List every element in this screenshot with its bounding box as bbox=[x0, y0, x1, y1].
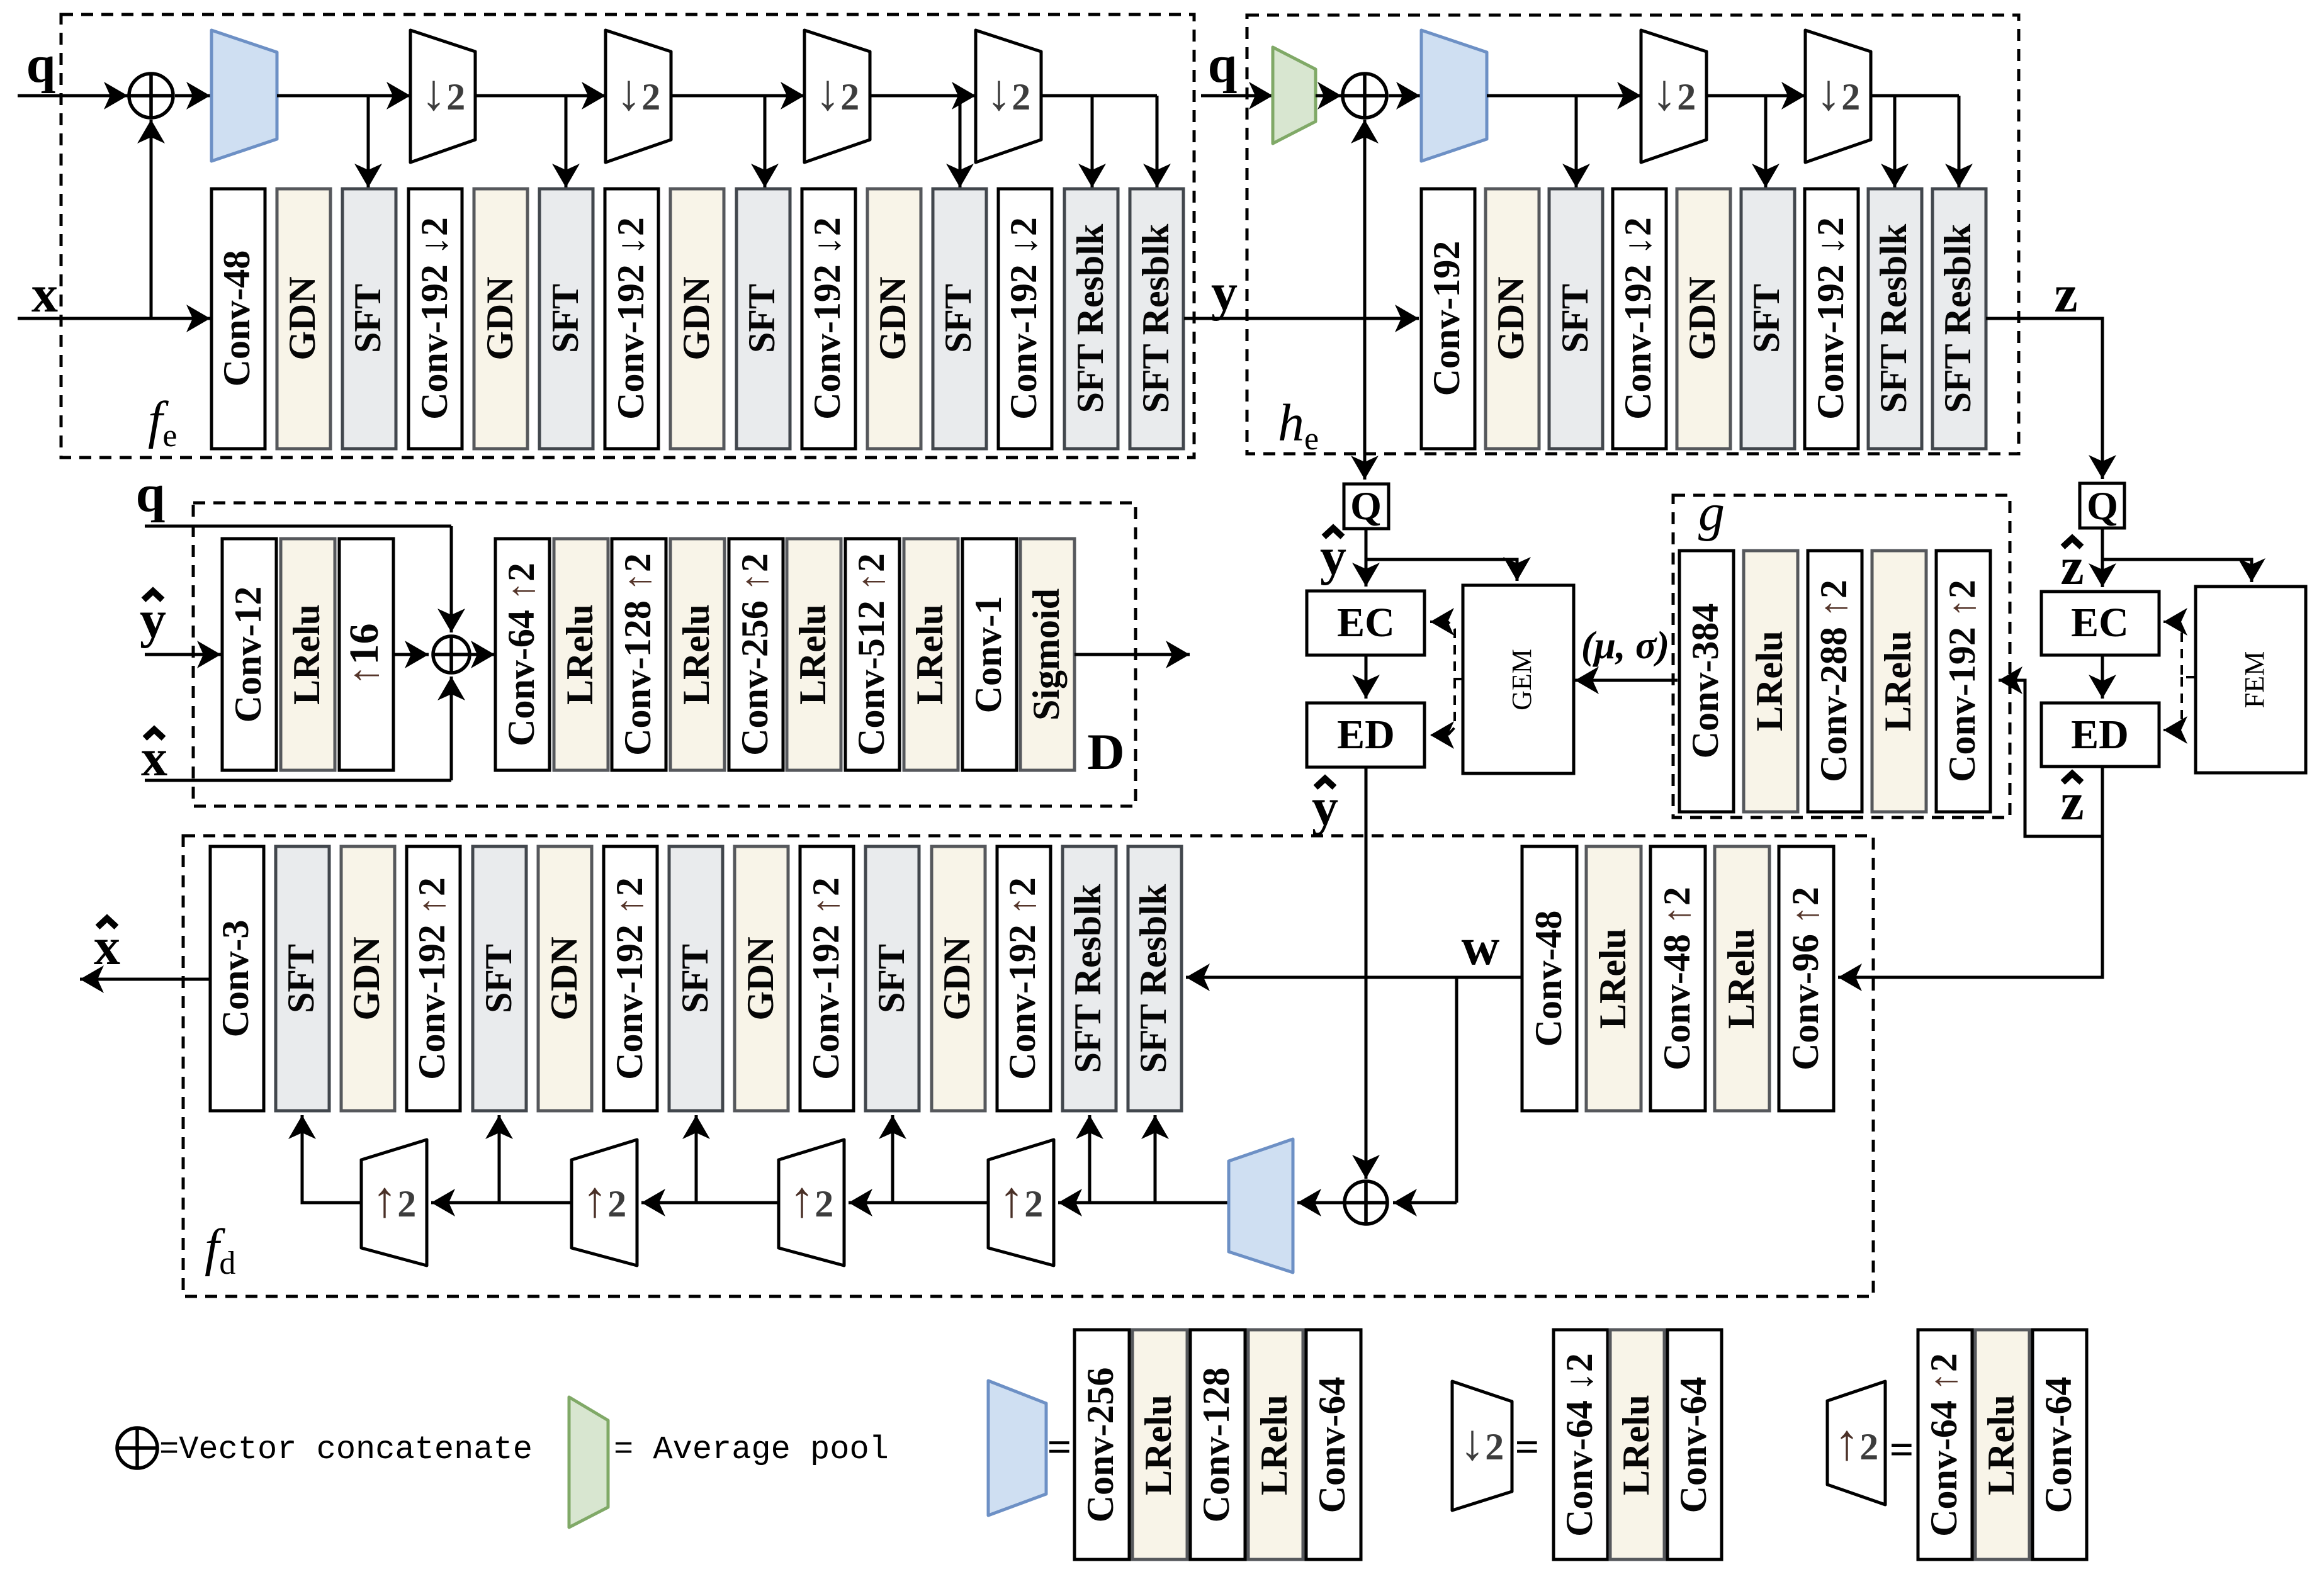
svg-text:Conv-64: Conv-64 bbox=[1672, 1377, 1714, 1514]
branch up to SFT Resblk1 (f_d) bbox=[1088, 1115, 1091, 1203]
legend block Conv-64 (up2 expansion #3) bbox=[2033, 1330, 2087, 1559]
svg-text:Conv-64: Conv-64 bbox=[1311, 1377, 1353, 1514]
svg-text:D: D bbox=[1087, 723, 1124, 780]
block Conv-12 (D front #1) bbox=[222, 539, 276, 770]
label z-hat below ED bbox=[2060, 773, 2084, 831]
svg-text:↑16: ↑16 bbox=[341, 624, 387, 686]
block GDN (f_d #6) bbox=[538, 846, 592, 1111]
dashed box h_e hyper-encoder bbox=[1247, 15, 2019, 454]
wire z from h_e to Q bbox=[1986, 318, 2102, 479]
svg-text:Conv-1: Conv-1 bbox=[967, 596, 1009, 714]
block LRelu (D main #2) bbox=[554, 539, 608, 770]
svg-text:GDN: GDN bbox=[1490, 276, 1531, 360]
branch up to SFT2 (f_d) bbox=[498, 1115, 501, 1203]
svg-text:Conv-192 ↑2: Conv-192 ↑2 bbox=[609, 877, 650, 1080]
block Conv-384 (g #1) bbox=[1679, 551, 1734, 812]
svg-text:Sigmoid: Sigmoid bbox=[1025, 588, 1067, 721]
block GDN (h_e #2) bbox=[1486, 189, 1539, 449]
GEM box bbox=[1463, 585, 1574, 773]
svg-text:Conv-192 ↓2: Conv-192 ↓2 bbox=[806, 217, 848, 420]
wire y-hat from ED down to concat (f_d) bbox=[1365, 767, 1368, 1179]
branch down to SFT3 (f_e) bbox=[764, 96, 767, 188]
wire x-hat up into concat (D) bbox=[450, 677, 453, 780]
wire concat to blue conv stack (h_e) bbox=[1389, 94, 1420, 98]
block Conv-192 ↑2 (f_d #4) bbox=[407, 846, 460, 1111]
branch up to SFT Resblk2 (f_d) bbox=[1154, 1115, 1157, 1203]
block Conv-192 ↑2 (g #5) bbox=[1936, 551, 1990, 812]
branch z-hat to g block bbox=[1999, 680, 2102, 836]
svg-text:Conv-192 ↓2: Conv-192 ↓2 bbox=[414, 217, 455, 420]
block LRelu (w chain #4) bbox=[1715, 846, 1769, 1111]
svg-text:LRelu: LRelu bbox=[1253, 1395, 1295, 1495]
block Conv-96 ↑2 (w chain #5) bbox=[1779, 846, 1834, 1111]
label x-hat (D input) bbox=[141, 729, 167, 787]
svg-text:LRelu: LRelu bbox=[1980, 1395, 2022, 1495]
block Conv-192 ↑2 (f_d #13) bbox=[997, 846, 1051, 1111]
block SFT (h_e #3) bbox=[1549, 189, 1603, 449]
Q box (z path) bbox=[2080, 483, 2124, 528]
block GDN (f_e #11) bbox=[867, 189, 921, 449]
wire g to GEM (mu sigma) bbox=[1575, 679, 1678, 682]
dashed box D discriminator bbox=[193, 503, 1136, 806]
svg-text:LRelu: LRelu bbox=[286, 604, 327, 705]
svg-text:SFT Resblk: SFT Resblk bbox=[1067, 884, 1108, 1073]
ED box (y path) bbox=[1307, 703, 1424, 767]
block LRelu (D main #4) bbox=[670, 539, 725, 770]
wire concat to blue (f_d) bbox=[1297, 1201, 1343, 1205]
up2 trapezoid #4 (f_d) bbox=[988, 1140, 1054, 1266]
branch down to SFT Resblk1 (h_e) bbox=[1893, 96, 1897, 188]
ED box (z path) bbox=[2041, 703, 2159, 767]
wire d2#1 to d2#2 (h_e) bbox=[1706, 94, 1805, 98]
concat circle-plus (D) bbox=[433, 636, 470, 673]
svg-text:Conv-192 ↓2: Conv-192 ↓2 bbox=[610, 217, 652, 420]
block Conv-3 (f_d #1) bbox=[210, 846, 264, 1111]
down2 trapezoid #4 (f_e) bbox=[976, 30, 1041, 162]
svg-text:Conv-3: Conv-3 bbox=[215, 920, 256, 1038]
up2 trapezoid #1 (f_d) bbox=[361, 1140, 427, 1266]
wire pool to concat (h_e) bbox=[1316, 94, 1341, 98]
down2 trapezoid #1 (h_e) bbox=[1641, 30, 1706, 162]
svg-text:(μ, σ): (μ, σ) bbox=[1581, 624, 1669, 667]
svg-text:LRelu: LRelu bbox=[792, 604, 833, 705]
green average-pool trapezoid (h_e) bbox=[1273, 47, 1316, 143]
svg-text:LRelu: LRelu bbox=[1749, 631, 1790, 731]
svg-text:LRelu: LRelu bbox=[1592, 928, 1633, 1029]
wire z-hat down and into Conv-96 (w chain) bbox=[1838, 767, 2102, 977]
up2 trapezoid #3 (f_d) bbox=[779, 1140, 844, 1266]
svg-text:y: y bbox=[1211, 263, 1238, 322]
svg-text:SFT Resblk: SFT Resblk bbox=[1937, 223, 1978, 413]
label z-hat above EC bbox=[2060, 537, 2084, 596]
wire y from f_e to h_e Conv-192 bbox=[1184, 317, 1419, 320]
svg-text:q: q bbox=[136, 464, 166, 523]
wire q into concat (f_e) bbox=[18, 94, 128, 98]
concat circle-plus (h_e) bbox=[1343, 74, 1387, 118]
wire d2#3 to d2#4 (f_e) bbox=[870, 94, 976, 98]
branch down to SFT2 (f_e) bbox=[565, 96, 568, 188]
wire q down into concat (D) bbox=[450, 526, 453, 632]
up2 trapezoid #2 (f_d) bbox=[572, 1140, 637, 1266]
svg-text:SFT: SFT bbox=[1554, 284, 1596, 353]
block SFT Resblk (f_e #15) bbox=[1130, 189, 1183, 449]
svg-text:LRelu: LRelu bbox=[909, 604, 950, 705]
svg-text:LRelu: LRelu bbox=[559, 604, 601, 705]
legend block Conv-64 (down2 expansion #3) bbox=[1667, 1330, 1722, 1559]
svg-text:Conv-64: Conv-64 bbox=[2038, 1377, 2079, 1514]
wire up16 to concat (D) bbox=[393, 653, 429, 656]
concat circle-plus (f_e) bbox=[129, 74, 173, 118]
wire EC to ED (y path) bbox=[1365, 655, 1368, 699]
block SFT (f_e #9) bbox=[736, 189, 790, 449]
block SFT Resblk (f_e #14) bbox=[1064, 189, 1118, 449]
svg-text:SFT Resblk: SFT Resblk bbox=[1069, 223, 1111, 413]
svg-text:x: x bbox=[31, 265, 58, 323]
wire D output bbox=[1075, 653, 1190, 656]
svg-text:= Average pool: = Average pool bbox=[614, 1431, 889, 1468]
wire up2#4 to up2#3 (f_d) bbox=[849, 1201, 988, 1205]
down2 trapezoid #2 (h_e) bbox=[1805, 30, 1871, 162]
legend circle-plus symbol bbox=[117, 1428, 157, 1468]
svg-text:SFT: SFT bbox=[544, 284, 586, 353]
svg-text:Conv-96 ↑2: Conv-96 ↑2 bbox=[1785, 887, 1826, 1070]
legend block LRelu (up2 expansion #2) bbox=[1975, 1330, 2029, 1559]
svg-text:SFT Resblk: SFT Resblk bbox=[1135, 223, 1176, 413]
FEM box bbox=[2196, 587, 2306, 773]
block Conv-64 ↑2 (D main #1) bbox=[495, 539, 550, 770]
svg-text:Conv-128: Conv-128 bbox=[1195, 1368, 1237, 1523]
svg-text:SFT Resblk: SFT Resblk bbox=[1873, 223, 1914, 413]
block Conv-48 (f_e #1) bbox=[212, 189, 265, 449]
svg-text:Conv-192 ↓2: Conv-192 ↓2 bbox=[1003, 217, 1044, 420]
block Conv-192 (h_e #1) bbox=[1421, 189, 1475, 449]
block Conv-48 ↑2 (w chain #3) bbox=[1650, 846, 1705, 1111]
block SFT (f_e #12) bbox=[933, 189, 986, 449]
branch down to SFT Resblk1 (f_e) bbox=[1091, 96, 1094, 188]
svg-text:SFT: SFT bbox=[347, 284, 388, 353]
legend block LRelu (blue expansion #2) bbox=[1132, 1330, 1187, 1559]
svg-text:SFT Resblk: SFT Resblk bbox=[1132, 884, 1174, 1073]
branch up to SFT3 (f_d) bbox=[695, 1115, 698, 1203]
svg-text:Conv-192 ↑2: Conv-192 ↑2 bbox=[1941, 580, 1983, 782]
svg-text:Conv-48: Conv-48 bbox=[216, 250, 257, 387]
wire x-hat output (f_d) bbox=[80, 978, 210, 981]
wire x into Conv-48 (f_e) bbox=[18, 317, 210, 320]
dashed FEM to ED bbox=[2163, 677, 2182, 730]
legend block Conv-256 (blue expansion #1) bbox=[1075, 1330, 1129, 1559]
label x-hat (f_d output) bbox=[94, 918, 120, 976]
block Conv-1 (D main #9) bbox=[962, 539, 1017, 770]
svg-text:GDN: GDN bbox=[675, 276, 717, 360]
wire concat to blue conv stack (f_e) bbox=[175, 94, 210, 98]
blue trapezoid conv stack (f_d) bbox=[1229, 1139, 1293, 1272]
svg-text:Conv-192 ↑2: Conv-192 ↑2 bbox=[805, 877, 847, 1080]
block GDN (f_e #8) bbox=[670, 189, 724, 449]
wire up2#2 to up2#1 (f_d) bbox=[431, 1201, 572, 1205]
dashed box f_d decoder bbox=[183, 836, 1873, 1296]
wire y-hat into Conv-12 (D) bbox=[145, 653, 221, 656]
svg-text:Conv-192 ↓2: Conv-192 ↓2 bbox=[1810, 217, 1851, 420]
block SFT (f_d #8) bbox=[669, 846, 723, 1111]
down2 trapezoid #2 (f_e) bbox=[606, 30, 671, 162]
legend block Conv-64 ↓2 (down2 expansion #1) bbox=[1554, 1330, 1608, 1559]
branch down to SFT2 (h_e) bbox=[1764, 96, 1768, 188]
svg-text:LRelu: LRelu bbox=[1137, 1395, 1179, 1495]
svg-text:ED: ED bbox=[1337, 712, 1395, 758]
wire Q to EC (z path) bbox=[2101, 528, 2104, 587]
svg-text:Conv-64 ↓2: Conv-64 ↓2 bbox=[1559, 1353, 1600, 1537]
svg-text:Conv-192 ↑2: Conv-192 ↑2 bbox=[1001, 877, 1043, 1080]
wire blue out to down2 #1 (h_e) bbox=[1487, 94, 1641, 98]
svg-text:GDN: GDN bbox=[281, 276, 323, 360]
svg-text:GDN: GDN bbox=[1681, 276, 1723, 360]
legend block Conv-64 ↑2 (up2 expansion #1) bbox=[1918, 1330, 1972, 1559]
label y-hat (D input) bbox=[140, 590, 166, 649]
block SFT Resblk (f_d #14) bbox=[1063, 846, 1116, 1111]
block GDN (h_e #5) bbox=[1677, 189, 1730, 449]
blue trapezoid conv stack (f_e) bbox=[212, 30, 277, 161]
wire q into D bbox=[145, 525, 451, 528]
branch y up into concat (h_e) bbox=[1363, 120, 1367, 318]
wire w branch into concat (f_d) bbox=[1393, 1201, 1457, 1205]
wire x-hat into D bbox=[145, 779, 451, 782]
wire q into average pool (h_e) bbox=[1201, 94, 1273, 98]
block SFT Resblk (f_d #15) bbox=[1128, 846, 1182, 1111]
svg-text:LRelu: LRelu bbox=[675, 604, 717, 705]
svg-text:SFT: SFT bbox=[871, 944, 912, 1013]
wire blue to up2#4 (f_d) bbox=[1058, 1201, 1229, 1205]
wire w to SFT Resblk (f_d) bbox=[1186, 976, 1522, 979]
dashed box g bbox=[1673, 495, 2010, 817]
branch down to SFT4 (f_e) bbox=[959, 96, 962, 188]
legend block Conv-64 (blue expansion #5) bbox=[1306, 1330, 1361, 1559]
down2 trapezoid #1 (f_e) bbox=[410, 30, 475, 162]
block SFT (f_e #3) bbox=[342, 189, 396, 449]
svg-text:SFT: SFT bbox=[674, 944, 716, 1013]
svg-text:Conv-256: Conv-256 bbox=[1080, 1368, 1121, 1523]
block SFT Resblk (h_e #8) bbox=[1868, 189, 1922, 449]
svg-text:q: q bbox=[1208, 35, 1238, 94]
block GDN (f_e #5) bbox=[474, 189, 527, 449]
block Conv-192 ↓2 (f_e #4) bbox=[409, 189, 462, 449]
block LRelu (D main #6) bbox=[787, 539, 841, 770]
branch down to SFT1 (f_e) bbox=[367, 96, 370, 188]
block SFT (f_d #2) bbox=[276, 846, 329, 1111]
svg-text:Conv-512 ↑2: Conv-512 ↑2 bbox=[850, 553, 892, 756]
svg-text:GEM: GEM bbox=[1506, 649, 1537, 711]
branch w down to concat (f_d) bbox=[1455, 977, 1458, 1203]
wire d2#1 to d2#2 (f_e) bbox=[475, 94, 606, 98]
svg-text:Conv-128 ↑2: Conv-128 ↑2 bbox=[617, 553, 658, 756]
down2 trapezoid #3 (f_e) bbox=[804, 30, 870, 162]
block LRelu (g #4) bbox=[1872, 551, 1926, 812]
wire up2#3 to up2#2 (f_d) bbox=[641, 1201, 779, 1205]
block Conv-48 (w chain #1) bbox=[1522, 846, 1577, 1111]
svg-text:Q: Q bbox=[1350, 483, 1382, 528]
svg-text:Conv-256 ↑2: Conv-256 ↑2 bbox=[734, 553, 776, 756]
svg-text:Conv-48: Conv-48 bbox=[1528, 911, 1569, 1047]
block SFT (f_d #5) bbox=[473, 846, 526, 1111]
block GDN (f_d #12) bbox=[932, 846, 985, 1111]
svg-text:SFT: SFT bbox=[478, 944, 519, 1013]
svg-text:Conv-192 ↓2: Conv-192 ↓2 bbox=[1617, 217, 1659, 420]
svg-text:GDN: GDN bbox=[740, 936, 781, 1020]
wire d2#2 to d2#3 (f_e) bbox=[671, 94, 804, 98]
svg-text:q: q bbox=[26, 35, 56, 94]
svg-text:GDN: GDN bbox=[346, 936, 387, 1020]
wire EC to ED (z path) bbox=[2101, 655, 2104, 699]
block Conv-192 ↓2 (f_e #13) bbox=[998, 189, 1052, 449]
block SFT (f_e #6) bbox=[539, 189, 593, 449]
svg-text:FEM: FEM bbox=[2239, 651, 2270, 708]
block SFT Resblk (h_e #9) bbox=[1932, 189, 1986, 449]
blue trapezoid conv stack (h_e) bbox=[1421, 30, 1487, 161]
legend block LRelu (down2 expansion #2) bbox=[1610, 1330, 1664, 1559]
legend down2 trapezoid bbox=[1452, 1381, 1512, 1510]
block Conv-192 ↓2 (f_e #10) bbox=[802, 189, 855, 449]
concat circle-plus (f_d) bbox=[1345, 1181, 1387, 1224]
svg-text:GDN: GDN bbox=[543, 936, 585, 1020]
block Conv-192 ↑2 (f_d #10) bbox=[800, 846, 854, 1111]
svg-text:Conv-288 ↑2: Conv-288 ↑2 bbox=[1813, 580, 1854, 782]
legend block LRelu (blue expansion #4) bbox=[1248, 1330, 1303, 1559]
svg-text:LRelu: LRelu bbox=[1615, 1395, 1657, 1495]
svg-text:SFT: SFT bbox=[280, 944, 322, 1013]
wire up2#1 to SFT1 (f_d) bbox=[302, 1115, 361, 1203]
wire d2#4 out (f_e) bbox=[1041, 94, 1157, 98]
EC box (z path) bbox=[2041, 592, 2159, 655]
wire blue out to down2 #1 (f_e) bbox=[277, 94, 410, 98]
legend green average-pool trapezoid bbox=[569, 1397, 608, 1527]
svg-text:GDN: GDN bbox=[872, 276, 913, 360]
dashed GEM to EC bbox=[1430, 622, 1463, 679]
block Conv-192 ↓2 (h_e #7) bbox=[1805, 189, 1858, 449]
svg-text:Conv-192: Conv-192 bbox=[1426, 241, 1467, 396]
block GDN (f_d #3) bbox=[341, 846, 395, 1111]
svg-text:ED: ED bbox=[2071, 712, 2129, 758]
svg-text:Conv-12: Conv-12 bbox=[227, 587, 269, 723]
svg-text:GDN: GDN bbox=[936, 936, 978, 1020]
wire Q to EC (y path) bbox=[1365, 529, 1368, 587]
svg-text:SFT: SFT bbox=[741, 284, 782, 353]
dashed FEM to EC bbox=[2163, 622, 2196, 677]
block Conv-192 ↓2 (h_e #4) bbox=[1613, 189, 1666, 449]
svg-text:=Vector concatenate: =Vector concatenate bbox=[159, 1431, 533, 1468]
block GDN (f_d #9) bbox=[735, 846, 788, 1111]
svg-text:w: w bbox=[1462, 918, 1500, 976]
svg-text:GDN: GDN bbox=[479, 276, 521, 360]
branch z-hat to FEM top bbox=[2102, 559, 2252, 582]
block Conv-512 ↑2 (D main #7) bbox=[845, 539, 900, 770]
block Conv-192 ↓2 (f_e #7) bbox=[605, 189, 658, 449]
block SFT (h_e #6) bbox=[1741, 189, 1795, 449]
svg-text:Conv-192 ↑2: Conv-192 ↑2 bbox=[411, 877, 453, 1080]
EC box (y path) bbox=[1307, 591, 1424, 655]
label y-hat above EC bbox=[1320, 527, 1346, 586]
svg-text:=: = bbox=[1890, 1425, 1914, 1473]
branch up to SFT4 (f_d) bbox=[891, 1115, 894, 1203]
dashed box f_e encoder bbox=[61, 14, 1194, 458]
svg-text:Conv-48 ↑2: Conv-48 ↑2 bbox=[1656, 887, 1698, 1070]
block Conv-192 ↑2 (f_d #7) bbox=[604, 846, 657, 1111]
svg-text:Q: Q bbox=[2087, 483, 2118, 528]
svg-text:g: g bbox=[1698, 483, 1725, 542]
branch down to SFT1 (h_e) bbox=[1575, 96, 1578, 188]
legend up2 trapezoid bbox=[1827, 1381, 1885, 1505]
wire concat to Conv-64 (D) bbox=[470, 653, 495, 656]
block ↑16 (D front #3) bbox=[339, 539, 393, 770]
svg-text:LRelu: LRelu bbox=[1720, 928, 1762, 1029]
wire d2#2 out (h_e) bbox=[1871, 94, 1959, 98]
svg-text:Conv-384: Conv-384 bbox=[1684, 604, 1726, 759]
block LRelu (g #2) bbox=[1744, 551, 1798, 812]
svg-text:Conv-64 ↑2: Conv-64 ↑2 bbox=[500, 563, 542, 746]
svg-text:SFT: SFT bbox=[937, 284, 979, 353]
branch down to SFT Resblk2 (h_e) bbox=[1958, 96, 1961, 188]
dashed GEM to ED bbox=[1430, 679, 1455, 735]
block LRelu (D front #2) bbox=[281, 539, 335, 770]
svg-text:Conv-64 ↑2: Conv-64 ↑2 bbox=[1923, 1353, 1965, 1537]
svg-text:=: = bbox=[1047, 1423, 1072, 1471]
svg-text:LRelu: LRelu bbox=[1877, 631, 1919, 731]
svg-text:=: = bbox=[1515, 1423, 1540, 1471]
svg-text:SFT: SFT bbox=[1746, 284, 1787, 353]
branch x up into concat (f_e) bbox=[150, 120, 153, 318]
Q box (y path) bbox=[1344, 483, 1389, 529]
block LRelu (w chain #2) bbox=[1586, 846, 1641, 1111]
legend blue trapezoid bbox=[988, 1381, 1046, 1515]
block Conv-288 ↑2 (g #3) bbox=[1808, 551, 1862, 812]
wire y down to Q (latent path) bbox=[1363, 318, 1367, 480]
svg-text:z: z bbox=[2054, 265, 2077, 323]
block Conv-256 ↑2 (D main #5) bbox=[729, 539, 783, 770]
label y-hat below ED bbox=[1312, 778, 1338, 836]
branch down to SFT Resblk2 (f_e) bbox=[1156, 96, 1159, 188]
block Conv-128 ↑2 (D main #3) bbox=[612, 539, 666, 770]
block Sigmoid (D main #10) bbox=[1020, 539, 1075, 770]
svg-text:EC: EC bbox=[2071, 600, 2129, 646]
svg-text:EC: EC bbox=[1337, 600, 1395, 646]
block SFT (f_d #11) bbox=[866, 846, 919, 1111]
legend block Conv-128 (blue expansion #3) bbox=[1190, 1330, 1245, 1559]
block GDN (f_e #2) bbox=[277, 189, 330, 449]
branch y-hat to GEM top bbox=[1366, 559, 1517, 581]
block LRelu (D main #8) bbox=[904, 539, 958, 770]
